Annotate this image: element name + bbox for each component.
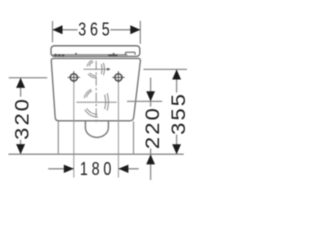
svg-text:220: 220 <box>142 106 163 149</box>
svg-text:320: 320 <box>12 97 33 140</box>
svg-text:355: 355 <box>168 92 189 135</box>
svg-text:365: 365 <box>78 19 113 40</box>
svg-text:180: 180 <box>80 158 115 179</box>
